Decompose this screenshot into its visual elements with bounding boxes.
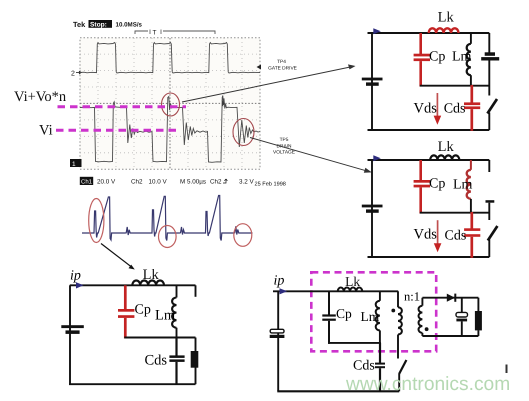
drain voltage trace (ch1)	[80, 96, 260, 163]
svg-text:Cp: Cp	[429, 49, 445, 64]
capacitor Cp (red)	[414, 160, 430, 214]
svg-text:Lm: Lm	[155, 308, 176, 324]
wire: right branch below middle rail	[195, 338, 197, 352]
svg-text:Stop:: Stop:	[90, 22, 107, 29]
svg-text:Lm: Lm	[452, 49, 472, 64]
current direction arrow	[76, 282, 84, 288]
wire: left branch	[371, 33, 373, 130]
trigger level arrow at right border	[257, 65, 262, 70]
wire: top rail	[368, 32, 490, 34]
wire: middle rail	[124, 337, 195, 339]
wire: right branch stub (capacitor top)	[488, 160, 490, 172]
svg-text:Ch2: Ch2	[210, 179, 222, 186]
capacitor Cds (red)	[464, 212, 480, 258]
red highlight circle on turn-off ringing	[233, 119, 254, 146]
svg-text:Vds: Vds	[414, 227, 438, 243]
svg-text:1: 1	[72, 161, 76, 168]
wire: right branch lower	[488, 113, 490, 131]
inductor Lm (magnetizing, black)	[467, 33, 471, 86]
svg-text:ip: ip	[274, 274, 285, 289]
svg-text:TP5: TP5	[280, 137, 289, 143]
scope header text: Tek Stop: 10.0MS/s	[73, 20, 143, 29]
capacitor Cp (black)	[322, 291, 336, 344]
svg-text:TP4: TP4	[277, 59, 286, 65]
arrow from circle to circuit 1	[182, 64, 356, 102]
svg-text:M 5.00µs: M 5.00µs	[180, 179, 206, 186]
wire: switch to bottom rail	[398, 374, 400, 392]
capacitor Cds (red)	[464, 85, 480, 131]
scope graticule grid dots	[80, 38, 260, 169]
svg-text:VOLTAGE: VOLTAGE	[273, 150, 295, 156]
transformer primary winding	[398, 291, 402, 358]
inductor Lk (leakage, red)	[429, 28, 459, 33]
Vi+Vo*n dashed level line	[58, 105, 187, 108]
svg-text:Cds: Cds	[353, 359, 375, 374]
TP5 DRAIN VOLTAGE label	[273, 137, 295, 156]
drain turn-off spike marker	[222, 100, 225, 107]
circuit 4 (full flyback with transformer)	[270, 272, 482, 391]
wire: right branch lower	[195, 368, 197, 385]
trigger position bracket	[135, 31, 215, 34]
capacitor Cp (red)	[118, 285, 134, 338]
wire: bottom rail	[368, 256, 490, 258]
source capacitor (input)	[362, 78, 383, 86]
svg-text:n:1: n:1	[404, 290, 420, 304]
scope center cross ticks	[80, 38, 260, 169]
svg-text:Cp: Cp	[135, 303, 151, 318]
Vds arrow (red)	[434, 93, 442, 125]
circuit 1 (flyback equivalent, leakage resonance)	[362, 9, 499, 130]
svg-text:ip: ip	[70, 269, 81, 284]
wire: top rail	[70, 284, 196, 286]
svg-text:Lk: Lk	[143, 267, 160, 283]
wire: right branch to middle rail	[488, 60, 490, 95]
wire: bottom rail	[69, 383, 196, 385]
inductor Lm (black)	[172, 285, 176, 337]
current direction arrow	[280, 288, 288, 294]
wire: left branch	[69, 285, 71, 384]
wire: secondary top rail	[422, 297, 478, 299]
capacitor Cp (red)	[414, 33, 430, 87]
svg-text:Ch1: Ch1	[81, 179, 93, 186]
red circle around second ringing	[234, 224, 252, 247]
svg-text:Lk: Lk	[345, 274, 360, 289]
svg-text:3.2 V: 3.2 V	[239, 179, 255, 186]
diode	[447, 294, 456, 302]
wire: right branch upper	[488, 33, 490, 53]
svg-text:GATE DRIVE: GATE DRIVE	[268, 66, 297, 72]
wire: right branch to middle rail	[488, 203, 490, 220]
svg-text:Lm: Lm	[361, 309, 380, 324]
inductor Lk (leakage, black)	[430, 155, 459, 160]
switch blade	[487, 99, 497, 114]
svg-text:20.0 V: 20.0 V	[97, 179, 116, 186]
wire: left branch	[277, 291, 279, 391]
inductor Lk (black)	[338, 288, 363, 292]
dashed highlight box	[311, 272, 436, 351]
inductor Lm (magnetizing, red)	[467, 160, 471, 213]
capacitor Cds (black)	[169, 338, 184, 385]
small mark near right edge	[506, 365, 508, 374]
svg-text:Cp: Cp	[336, 306, 352, 321]
switch blade	[488, 226, 498, 241]
channel 1 marker box	[70, 159, 82, 168]
circuit 2 (flyback equivalent, magnetizing resonance)	[362, 139, 498, 258]
red circle around first ringing	[159, 226, 177, 248]
switch body (solid bar)	[191, 351, 199, 368]
wire: middle rail	[420, 212, 490, 214]
scope bottom readout text	[80, 177, 286, 188]
output capacitor (reflected source)	[481, 52, 499, 60]
secondary polarity dot	[425, 327, 429, 331]
svg-text:25 Feb 1998: 25 Feb 1998	[255, 181, 286, 188]
svg-text:Lk: Lk	[438, 139, 455, 155]
source capacitor (input, hollow top plate)	[270, 329, 285, 338]
svg-text:10.0MS/s: 10.0MS/s	[116, 22, 143, 29]
gate drive trace (ch2)	[80, 43, 260, 74]
wire: middle rail	[420, 85, 490, 87]
capacitor lower plate	[486, 200, 495, 203]
load resistor (solid bar)	[475, 298, 482, 336]
svg-text:Lm: Lm	[453, 177, 473, 192]
primary current sketch waveform	[82, 196, 253, 241]
svg-text:Vds: Vds	[414, 101, 438, 117]
svg-text:Cds: Cds	[444, 102, 466, 117]
capacitor Cds (black)	[375, 343, 385, 391]
svg-text:Vi+Vo*n: Vi+Vo*n	[14, 89, 67, 105]
inductor Lk (black)	[132, 280, 164, 285]
svg-text:Ch2: Ch2	[131, 179, 143, 186]
source capacitor (input)	[362, 205, 383, 213]
svg-text:www.cntronics.com: www.cntronics.com	[345, 374, 510, 395]
arrow from spike ellipse to Lk of circuit 3	[101, 244, 135, 270]
current direction arrow	[373, 155, 381, 161]
red highlight circle on turn-on ringing	[162, 93, 180, 116]
wire: secondary bottom rail	[422, 335, 478, 337]
wire: bottom rail	[277, 390, 399, 392]
source capacitor (input)	[61, 325, 84, 334]
svg-text:10.0 V: 10.0 V	[149, 179, 168, 186]
wire: right branch lower	[488, 240, 490, 258]
current direction arrow	[373, 28, 381, 34]
svg-text:Vi: Vi	[39, 123, 53, 139]
svg-text:Cds: Cds	[145, 353, 168, 369]
wire: left branch	[371, 160, 373, 257]
circuit 3 (bottom-left equivalent circuit)	[61, 267, 198, 384]
wire: right branch stub	[195, 285, 197, 297]
channel 2 marker	[71, 71, 81, 78]
Vi dashed level line	[56, 129, 178, 132]
scope graticule frame	[80, 38, 260, 170]
oscilloscope screenshot group	[70, 20, 372, 188]
arrow from circle to circuit 2	[250, 138, 372, 173]
svg-text:Lk: Lk	[438, 9, 455, 25]
Vds arrow (red)	[434, 220, 442, 252]
output capacitor (hollow top plate)	[456, 298, 468, 336]
svg-text:Cp: Cp	[429, 176, 445, 191]
svg-text:Cds: Cds	[445, 228, 467, 243]
transformer secondary winding	[419, 298, 423, 336]
switch blade	[399, 360, 406, 374]
wire: bottom rail	[368, 129, 490, 131]
red ellipse around turn-on spike	[89, 199, 104, 243]
svg-text:Tek: Tek	[73, 20, 86, 29]
wire: top rail	[368, 159, 490, 161]
wire: middle rail	[328, 342, 381, 344]
svg-text:2: 2	[71, 71, 75, 78]
primary polarity dot	[391, 309, 395, 313]
TP4 GATE DRIVE label	[268, 59, 297, 72]
svg-text:T: T	[153, 30, 157, 37]
inductor Lm (black)	[376, 291, 380, 343]
wire: top rail	[273, 290, 398, 292]
